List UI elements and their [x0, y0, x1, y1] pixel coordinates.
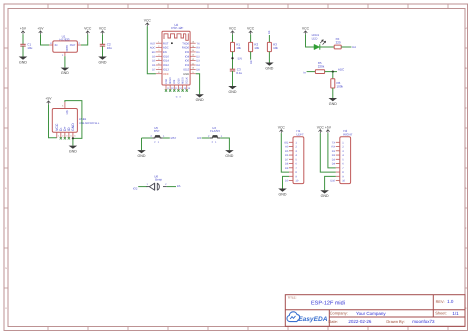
- svg-text:D6: D6: [152, 64, 156, 67]
- svg-text:D: D: [5, 147, 7, 150]
- svg-text:D2: D2: [196, 55, 200, 58]
- svg-text:D1: D1: [196, 51, 200, 54]
- svg-text:IO16: IO16: [163, 55, 169, 58]
- resistor R3: [267, 42, 271, 51]
- svg-text:RST: RST: [163, 42, 169, 45]
- connector USB1 USB-MICRO: [52, 109, 77, 133]
- svg-text:IO13: IO13: [163, 68, 169, 71]
- svg-text:2: 2: [179, 95, 182, 97]
- wire +5V to C1: [22, 34, 24, 44]
- capacitor C1: [20, 43, 25, 45]
- LED LED1: [314, 44, 320, 49]
- regulator U1 HT7833: [53, 41, 78, 52]
- wire VCC to ESP VCC pin: [147, 26, 156, 73]
- svg-text:+5V: +5V: [20, 27, 27, 31]
- svg-text:TX: TX: [332, 141, 336, 144]
- svg-text:10k: 10k: [273, 46, 278, 50]
- wire USB GND to ground: [72, 138, 74, 145]
- svg-text:7: 7: [342, 167, 344, 170]
- no-connect marks USB D-/D+/ID: [60, 137, 62, 139]
- svg-text:GND: GND: [265, 66, 273, 70]
- pushbutton U5 RST: [152, 137, 155, 139]
- ground (H2): [320, 190, 329, 193]
- wire USB shield loop: [65, 101, 82, 139]
- svg-text:REV:: REV:: [436, 299, 445, 304]
- svg-text:EN: EN: [238, 56, 242, 60]
- svg-text:D3: D3: [332, 158, 336, 161]
- svg-text:GND: GND: [183, 73, 189, 76]
- sheet border ticks and zone marks: [47, 4, 49, 9]
- wire R3 to ground: [268, 52, 270, 63]
- ground (C2): [98, 57, 107, 60]
- svg-text:100k: 100k: [337, 84, 344, 88]
- svg-text:VCC: VCC: [144, 19, 152, 23]
- svg-text:D5: D5: [177, 184, 181, 188]
- svg-text:ESP-12F: ESP-12F: [171, 26, 183, 30]
- svg-text:A: A: [5, 27, 7, 30]
- svg-text:5: 5: [342, 158, 344, 161]
- svg-text:D5: D5: [152, 60, 156, 63]
- svg-text:D4: D4: [352, 45, 356, 49]
- ground (U1): [61, 68, 70, 71]
- svg-text:C: C: [5, 107, 7, 110]
- svg-text:RST: RST: [150, 42, 156, 45]
- wire LED to R4: [320, 46, 334, 48]
- wire +5V to U1 IN: [41, 34, 50, 45]
- svg-text:VCC: VCC: [317, 125, 325, 129]
- ground (R6): [329, 98, 338, 101]
- wire R4 to net label: [341, 46, 351, 48]
- svg-text:8: 8: [342, 171, 344, 174]
- svg-text:E: E: [465, 187, 467, 190]
- svg-text:ADC: ADC: [163, 47, 169, 50]
- svg-text:D10: D10: [330, 180, 335, 183]
- svg-text:GND: GND: [69, 149, 77, 153]
- svg-text:1.0: 1.0: [447, 299, 454, 304]
- svg-text:D5: D5: [285, 150, 289, 153]
- resistor R5: [315, 70, 324, 74]
- wire FLASH button to ground: [220, 138, 229, 150]
- title block frame: [285, 295, 465, 327]
- ground (ESP-12F): [195, 94, 204, 97]
- ground (R3): [265, 63, 274, 66]
- svg-text:D8: D8: [285, 163, 289, 166]
- svg-text:GND: GND: [321, 194, 329, 198]
- svg-text:D0: D0: [152, 55, 156, 58]
- wire In to R5: [307, 71, 316, 73]
- svg-text:8: 8: [295, 171, 297, 174]
- svg-text:IO2: IO2: [284, 141, 289, 144]
- svg-text:LEFT: LEFT: [297, 132, 305, 136]
- svg-text:IO10: IO10: [177, 78, 180, 84]
- svg-text:220: 220: [336, 40, 341, 44]
- svg-text:GND: GND: [61, 71, 69, 75]
- svg-text:1: 1: [158, 141, 160, 144]
- svg-text:ESP-12F midi: ESP-12F midi: [311, 300, 345, 306]
- ground (C1): [19, 57, 28, 60]
- svg-text:4: 4: [70, 134, 72, 137]
- svg-text:EasyEDA: EasyEDA: [298, 316, 328, 323]
- svg-text:TXD0: TXD0: [182, 42, 189, 45]
- wire ground to RST button: [142, 137, 153, 139]
- wire R5 to node ADC: [325, 71, 337, 73]
- wire R2 to net label: [250, 52, 252, 60]
- svg-text:D3: D3: [268, 30, 271, 34]
- svg-text:EN: EN: [152, 51, 156, 54]
- no-connect marks ESP bottom pins: [165, 89, 167, 91]
- svg-text:1: 1: [215, 141, 217, 144]
- svg-text:moonfox73: moonfox73: [412, 319, 435, 324]
- svg-text:4: 4: [295, 154, 297, 157]
- svg-text:D8: D8: [250, 60, 253, 64]
- svg-text:10: 10: [295, 180, 298, 183]
- svg-text:IO5: IO5: [185, 51, 190, 54]
- svg-text:2: 2: [342, 146, 344, 149]
- svg-text:10u: 10u: [107, 46, 112, 50]
- svg-text:FLASH: FLASH: [210, 129, 220, 133]
- svg-text:G: G: [5, 267, 7, 270]
- svg-text:14: 14: [188, 87, 191, 90]
- svg-text:A: A: [465, 27, 467, 30]
- svg-text:VCC: VCC: [84, 27, 92, 31]
- svg-text:+5V: +5V: [37, 27, 44, 31]
- svg-text:9: 9: [295, 175, 297, 178]
- svg-text:+5V: +5V: [45, 97, 52, 101]
- svg-text:GND: GND: [65, 45, 69, 51]
- svg-text:IO12: IO12: [163, 64, 169, 67]
- svg-text:B: B: [465, 67, 467, 70]
- svg-text:SH: SH: [65, 110, 69, 114]
- svg-text:D2: D2: [332, 154, 336, 157]
- wire buzzer to label: [167, 186, 176, 188]
- svg-text:HT7833: HT7833: [60, 38, 70, 42]
- svg-text:D3: D3: [197, 136, 201, 140]
- svg-text:1: 1: [62, 54, 64, 57]
- wire H2 pin9 to ground: [325, 176, 336, 190]
- svg-text:Beep: Beep: [155, 178, 162, 182]
- junction USB GND: [72, 137, 74, 139]
- svg-text:EN: EN: [163, 51, 167, 54]
- svg-text:2022-02-26: 2022-02-26: [348, 319, 372, 324]
- svg-text:F: F: [5, 227, 7, 230]
- svg-text:6: 6: [342, 163, 344, 166]
- svg-text:5: 5: [295, 158, 297, 161]
- ground (H1): [278, 189, 287, 192]
- svg-text:GND: GND: [279, 192, 287, 196]
- svg-text:GND: GND: [71, 123, 75, 131]
- svg-text:A0: A0: [285, 146, 289, 149]
- EasyEDA logo: [287, 312, 300, 322]
- svg-text:OUT: OUT: [70, 43, 76, 47]
- svg-text:USB1: USB1: [79, 117, 87, 121]
- svg-text:IN: IN: [55, 43, 58, 47]
- svg-text:D7: D7: [152, 68, 156, 71]
- svg-text:10k: 10k: [254, 46, 259, 50]
- svg-text:RST: RST: [154, 129, 160, 133]
- svg-text:D4: D4: [332, 163, 336, 166]
- svg-text:RX: RX: [331, 146, 335, 149]
- svg-text:2: 2: [295, 146, 297, 149]
- svg-text:VCC: VCC: [278, 125, 286, 129]
- svg-text:D8: D8: [196, 68, 200, 71]
- svg-text:VCC: VCC: [99, 27, 107, 31]
- svg-text:H: H: [465, 307, 467, 310]
- svg-text:D9: D9: [285, 167, 289, 170]
- svg-text:1: 1: [295, 141, 297, 144]
- svg-text:MOSI: MOSI: [182, 77, 185, 84]
- svg-text:GND: GND: [329, 102, 337, 106]
- svg-text:D7: D7: [285, 158, 289, 161]
- svg-text:2: 2: [165, 183, 167, 186]
- svg-text:1: 1: [342, 141, 344, 144]
- resistor R2: [249, 42, 253, 51]
- wire R1 to C3, EN node: [232, 52, 234, 70]
- svg-text:Your Company: Your Company: [356, 311, 386, 316]
- capacitor C2: [100, 43, 105, 45]
- svg-text:MISO: MISO: [169, 77, 172, 84]
- ground (USB): [69, 146, 78, 149]
- ground (C3): [228, 86, 237, 89]
- svg-text:4: 4: [342, 154, 344, 157]
- wire VCC to LED: [306, 34, 315, 47]
- wire ESP GND pin to ground: [196, 74, 200, 95]
- svg-text:1/1: 1/1: [452, 311, 459, 316]
- svg-text:10u: 10u: [27, 46, 32, 50]
- junction node EN: [231, 57, 233, 59]
- resistor R6: [331, 79, 335, 88]
- svg-text:+5V: +5V: [325, 125, 332, 129]
- svg-text:G: G: [465, 267, 467, 270]
- svg-text:2: 2: [79, 42, 81, 45]
- svg-text:Date:: Date:: [328, 319, 338, 324]
- svg-text:IO2: IO2: [133, 186, 138, 190]
- svg-text:Sheet:: Sheet:: [435, 311, 447, 316]
- svg-text:D1: D1: [332, 150, 336, 153]
- ground (FLASH button): [225, 150, 234, 153]
- resistor R4: [334, 45, 341, 49]
- svg-text:6: 6: [295, 163, 297, 166]
- svg-text:TITLE:: TITLE:: [288, 296, 297, 300]
- wire label to FLASH button: [202, 137, 210, 139]
- wire VCC to H2 pin8: [320, 133, 336, 172]
- svg-text:IO0: IO0: [185, 60, 190, 63]
- svg-text:GND: GND: [138, 154, 146, 158]
- wire RST button to label: [163, 137, 170, 139]
- svg-text:GND: GND: [229, 90, 237, 94]
- svg-text:3: 3: [342, 150, 344, 153]
- svg-text:E: E: [5, 187, 7, 190]
- svg-text:SCLK: SCLK: [186, 77, 189, 84]
- svg-text:GND: GND: [19, 60, 27, 64]
- svg-text:7: 7: [295, 167, 297, 170]
- svg-text:IO15: IO15: [183, 68, 189, 71]
- svg-text:6: 6: [62, 105, 64, 108]
- wire C1 to ground: [22, 46, 24, 56]
- wire C2 to ground: [102, 46, 104, 56]
- svg-text:ADC: ADC: [338, 68, 345, 72]
- svg-text:1: 1: [147, 183, 149, 186]
- svg-text:2: 2: [154, 141, 156, 144]
- svg-text:VCC: VCC: [163, 73, 169, 76]
- svg-text:D6: D6: [285, 154, 289, 157]
- svg-text:Drawn By:: Drawn By:: [386, 319, 404, 324]
- svg-text:D4: D4: [196, 64, 200, 67]
- wire VCC to R2: [250, 34, 252, 42]
- svg-text:D: D: [465, 147, 467, 150]
- wire +5V to H2 pin7: [328, 133, 336, 168]
- svg-text:VCC: VCC: [302, 27, 310, 31]
- wire VCC to C2: [102, 34, 104, 44]
- wire label to R3: [268, 35, 270, 42]
- resistor R1: [231, 42, 235, 51]
- svg-text:3: 3: [50, 42, 52, 45]
- wire label to buzzer: [138, 186, 147, 188]
- svg-text:2: 2: [212, 141, 214, 144]
- pushbutton U4 FLASH: [210, 137, 213, 139]
- svg-text:10: 10: [342, 180, 345, 183]
- svg-text:RST: RST: [171, 136, 177, 140]
- svg-text:10k: 10k: [236, 46, 241, 50]
- svg-text:RIGHT: RIGHT: [343, 132, 353, 136]
- svg-text:9: 9: [342, 175, 344, 178]
- svg-text:GND: GND: [196, 98, 204, 102]
- wire R6 to ground: [332, 88, 334, 98]
- wire H1 pin9 to ground: [283, 176, 290, 188]
- wire C3 to ground: [232, 71, 234, 86]
- svg-text:RXD0: RXD0: [182, 47, 190, 50]
- wire node to R6: [332, 72, 334, 79]
- wire U1 GND pin to ground: [64, 56, 66, 67]
- svg-text:ADC: ADC: [150, 47, 156, 50]
- svg-text:LED: LED: [312, 36, 319, 40]
- svg-text:VCC: VCC: [229, 27, 237, 31]
- svg-text:5: 5: [74, 134, 76, 137]
- svg-text:CS0: CS0: [165, 78, 168, 84]
- svg-text:220k: 220k: [318, 65, 325, 69]
- svg-text:3: 3: [295, 150, 297, 153]
- svg-text:B: B: [5, 67, 7, 70]
- svg-text:D0: D0: [285, 180, 289, 183]
- svg-text:D3: D3: [196, 60, 200, 63]
- junction node ADC: [332, 71, 334, 73]
- svg-text:IO4: IO4: [185, 55, 190, 58]
- wire U1 OUT to VCC: [81, 34, 88, 45]
- svg-text:GND: GND: [99, 60, 107, 64]
- svg-text:0.1u: 0.1u: [236, 71, 242, 75]
- svg-text:C: C: [465, 107, 467, 110]
- svg-text:Company:: Company:: [330, 311, 348, 316]
- svg-text:IO9: IO9: [173, 79, 176, 84]
- capacitor C3: [230, 68, 235, 70]
- wire +5V to USB VCC pin: [49, 104, 57, 137]
- svg-text:IO2: IO2: [185, 64, 190, 67]
- svg-text:GND: GND: [225, 154, 233, 158]
- svg-text:TX: TX: [196, 42, 200, 45]
- wire VCC to H1 pin8: [281, 133, 289, 172]
- svg-text:IO14: IO14: [163, 60, 169, 63]
- svg-text:RX: RX: [196, 47, 200, 50]
- svg-text:VCC: VCC: [247, 27, 255, 31]
- svg-text:In: In: [303, 71, 306, 75]
- wire VCC to R1: [232, 34, 234, 42]
- ground (RST button): [141, 138, 143, 150]
- svg-text:H: H: [5, 307, 7, 310]
